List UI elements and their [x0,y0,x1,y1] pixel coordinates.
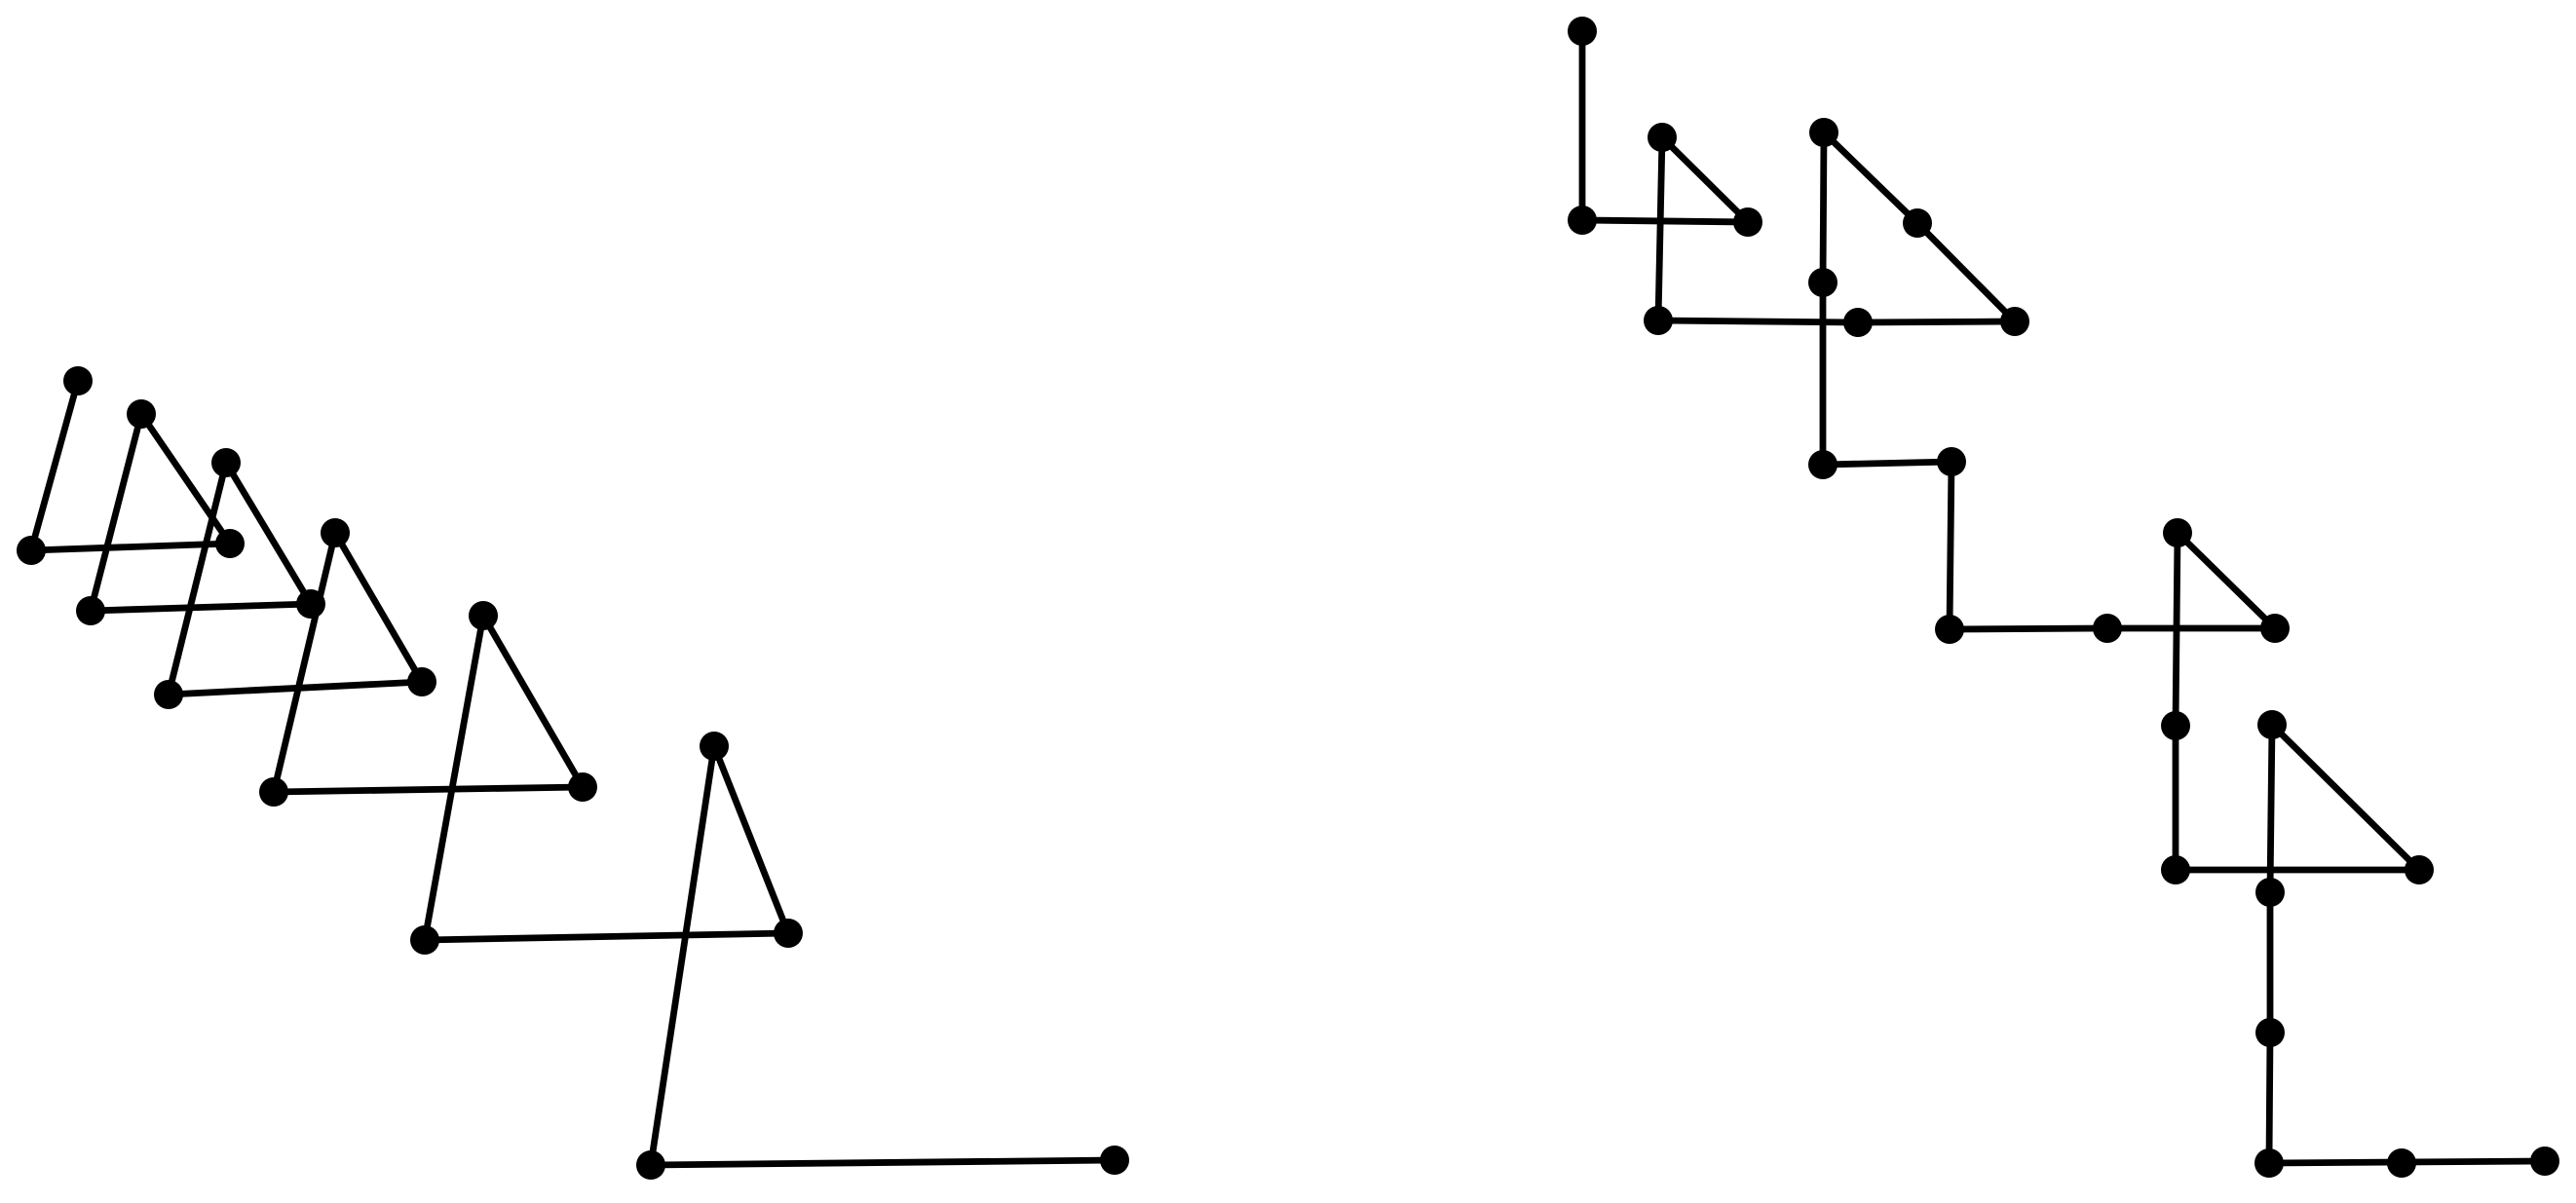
wire C3-A4 [335,533,422,682]
wire T20-T18 [2272,725,2419,870]
node C1 [215,529,245,558]
wire B2-C2 [91,604,311,611]
wire A5-B5 [425,616,483,940]
wire C5-A6 [714,746,788,933]
node T20 [2405,855,2434,884]
node T5 [1644,306,1673,335]
node B6 [636,1150,665,1180]
node B4 [259,777,288,807]
wire A4-B4 [274,533,335,792]
node T15 [2163,518,2192,547]
node T24 [2387,1148,2416,1178]
wire A1-B1 [31,381,78,550]
node B3 [154,680,183,709]
node T23 [2254,1148,2284,1178]
wire T1-T2 [1579,31,1586,220]
node T22 [2255,1018,2285,1047]
node T1 [1568,17,1597,46]
node T18 [2257,710,2287,739]
wire T21-T22 [2267,892,2274,1033]
wire T24-T25 [2402,1161,2545,1162]
node C2 [296,589,325,619]
node T3 [1648,123,1677,152]
wire T12-T13 [1950,462,1951,629]
node T11 [1808,450,1837,479]
node T8 [1808,268,1837,297]
node A6 [700,732,729,761]
wire T15-T17 [2176,533,2178,726]
node A2 [127,399,156,429]
wire T23-T24 [2269,1162,2402,1163]
wire A6-B6 [651,746,714,1165]
node T25 [2530,1147,2559,1176]
wire T8-T11 [1820,282,1827,465]
node T12 [1937,447,1966,476]
node T7 [1903,208,1932,238]
wire A3-B3 [169,463,226,695]
node C4 [568,772,597,802]
wire B6-C6 [651,1160,1115,1165]
node T16 [2260,614,2290,643]
node T14 [2093,614,2122,643]
node B2 [76,596,105,625]
wire T2-T4 [1582,220,1748,222]
node C6 [1100,1146,1129,1175]
wire T11-T12 [1823,462,1951,465]
wire T5-T9 [1658,320,1858,322]
wire B3-C3 [169,682,422,695]
node T2 [1568,206,1597,235]
wire B1-C1 [31,544,230,550]
node A4 [321,518,350,547]
node T6 [1809,118,1838,147]
node T9 [1843,308,1873,337]
wire T3-T5 [1658,137,1662,320]
wire T9-T10 [1858,321,2015,322]
wire T10-T7 [1917,223,2015,321]
node B5 [410,925,439,955]
wire T22-T23 [2269,1033,2270,1163]
wire T14-T16 [2107,625,2275,632]
wire C2-A3 [226,463,311,604]
node A1 [63,366,93,395]
wire T7-T6 [1824,132,1917,223]
wire T16-T15 [2178,533,2275,628]
wire T6-T8 [1823,132,1824,282]
wire T19-T20 [2176,867,2419,874]
node T10 [2000,307,2029,336]
wire T4-T3 [1662,137,1748,222]
wire T13-T14 [1950,628,2107,629]
wire C4-A5 [483,616,583,787]
node B1 [17,536,46,565]
node C5 [774,919,803,948]
node C3 [407,667,436,696]
node T17 [2161,711,2190,740]
wire B4-C4 [274,787,583,792]
wire A2-B2 [91,414,141,611]
node A5 [469,601,498,630]
node T13 [1935,615,1964,644]
node T19 [2161,855,2190,884]
wire T17-T19 [2173,726,2179,870]
node A3 [211,448,241,477]
wire B5-C5 [425,933,788,940]
wire T18-T21 [2270,725,2272,892]
wire C1-A2 [141,414,230,544]
node T21 [2255,878,2285,907]
node T4 [1733,207,1762,237]
